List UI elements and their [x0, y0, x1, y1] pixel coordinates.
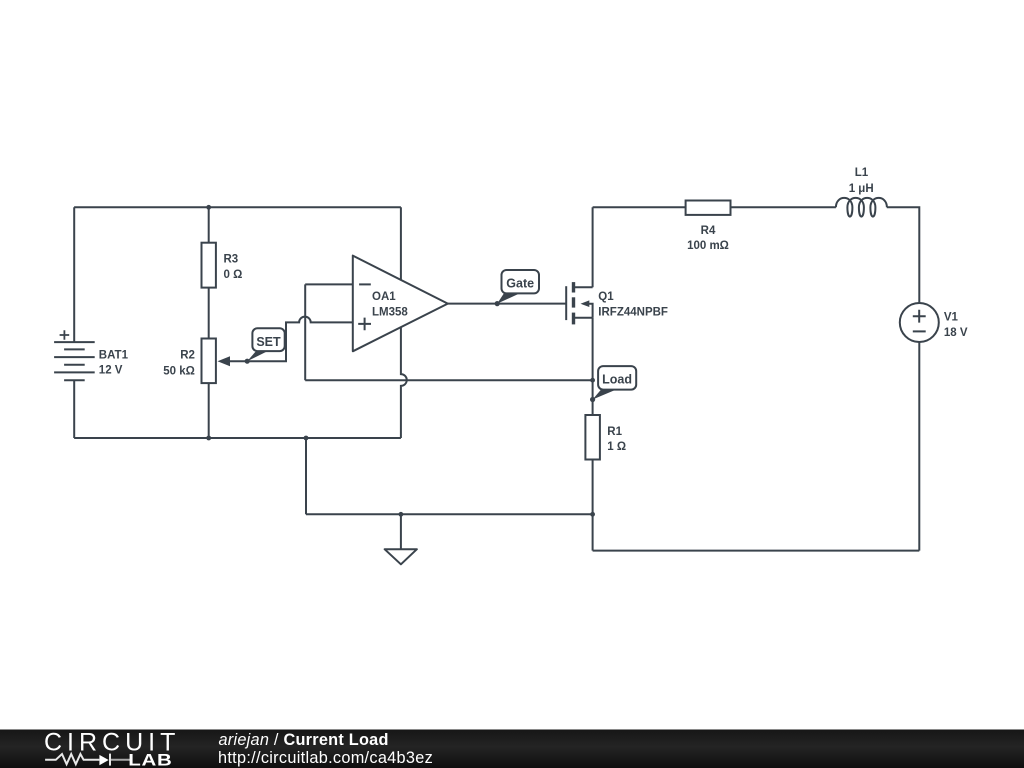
svg-text:12 V: 12 V [99, 365, 123, 377]
svg-text:Q1: Q1 [598, 291, 614, 303]
svg-text:V1: V1 [944, 311, 959, 323]
wire top rail right loop (R4 to L1) [731, 206, 836, 208]
wire battery bottom lead [73, 380, 75, 438]
inductor L1 [836, 198, 887, 217]
voltage source V1 [900, 303, 939, 342]
label R4 value [687, 225, 729, 252]
wire R1 bottom down to bottom rail [592, 460, 594, 551]
wire right side of left loop with hop over feedback [401, 207, 407, 438]
wire R2 bottom lead [208, 383, 210, 438]
label R1 value [607, 426, 626, 453]
wire drain vertical [592, 207, 594, 287]
svg-text:R1: R1 [607, 426, 622, 438]
footer logo resistor-diode glyph [45, 754, 131, 766]
wire R3 top lead [208, 207, 210, 242]
wire op-amp minus input [305, 283, 353, 285]
battery BAT1 [54, 342, 95, 380]
node Gate dot [495, 301, 500, 306]
op-amp minus glyph [359, 283, 371, 285]
wire top rail right loop (left of R4) [593, 206, 686, 208]
battery plus sign [60, 330, 70, 340]
resistor R1 [585, 415, 600, 460]
svg-text:SET: SET [256, 335, 281, 349]
svg-text:1 μH: 1 μH [849, 183, 874, 195]
label V1 value [944, 311, 968, 339]
label L1 value [849, 167, 874, 195]
node SET wiper dot [245, 359, 250, 364]
node ground branch junction [304, 436, 309, 441]
svg-text:R3: R3 [224, 254, 239, 266]
wire ground run horizontal [306, 513, 593, 515]
label OA1 LM358 [372, 291, 408, 319]
svg-text:BAT1: BAT1 [99, 349, 129, 361]
op-amp U1 OA1 triangle [353, 256, 448, 352]
label R3 value [224, 254, 243, 281]
svg-text:100 mΩ: 100 mΩ [687, 240, 729, 252]
wire mosfet source to R1 [592, 318, 594, 415]
node SET balloon [247, 328, 284, 361]
wire ground stem [400, 514, 402, 549]
wire left side battery top lead [73, 207, 75, 342]
node ground-R1 junction [590, 512, 595, 517]
wire wiper to SET node [229, 360, 247, 362]
wire V1 bottom lead and right side down [918, 342, 920, 551]
wire R3-R2 link [208, 288, 210, 339]
svg-text:R4: R4 [701, 225, 716, 237]
wire bottom-rail to ground run vertical [305, 438, 307, 514]
svg-text:Gate: Gate [506, 277, 534, 291]
wire bottom rail right loop [593, 550, 920, 552]
wire SET node to op-amp plus input with hop [247, 317, 353, 362]
label BAT1 value [99, 349, 129, 376]
potentiometer R2 wiper arrow [218, 356, 231, 366]
transistor Q1 NMOS [566, 282, 592, 324]
svg-text:1 Ω: 1 Ω [607, 441, 626, 453]
wire top rail left loop [74, 206, 401, 208]
node feedback-source junction [590, 378, 595, 383]
svg-text:IRFZ44NPBF: IRFZ44NPBF [598, 307, 668, 319]
node Gate balloon [497, 270, 539, 304]
node ground stem junction [399, 512, 404, 517]
svg-text:http://circuitlab.com/ca4b3ez: http://circuitlab.com/ca4b3ez [218, 749, 433, 767]
svg-text:OA1: OA1 [372, 291, 396, 303]
svg-text:Load: Load [602, 373, 632, 387]
svg-text:LAB: LAB [128, 750, 172, 768]
node R2 bottom rail junction [206, 436, 211, 441]
potentiometer R2 [202, 339, 216, 384]
resistor R4 [686, 201, 731, 215]
V1 minus glyph [913, 330, 926, 332]
node Load dot [590, 397, 595, 402]
wire bottom rail left loop [74, 437, 401, 439]
svg-text:LM358: LM358 [372, 306, 408, 318]
svg-text:ariejan / Current Load: ariejan / Current Load [219, 731, 389, 749]
V1 plus glyph [913, 310, 926, 323]
wire feedback horizontal to source node [305, 379, 592, 381]
footer bar [0, 730, 1024, 768]
svg-text:18 V: 18 V [944, 327, 968, 339]
wire op-amp output to gate [448, 303, 566, 305]
label R2 value [163, 350, 195, 378]
wire top rail right loop (L1 to corner) and V1 top lead [887, 207, 920, 303]
ground [385, 549, 417, 564]
junction dots [206, 205, 595, 517]
node Load balloon [593, 366, 637, 399]
label Q1 value [598, 291, 668, 319]
op-amp plus glyph [358, 318, 371, 331]
svg-text:L1: L1 [855, 167, 869, 179]
node R3 top rail junction [206, 205, 211, 210]
svg-text:50 kΩ: 50 kΩ [163, 365, 195, 377]
transistor Q1 arrow [581, 300, 590, 307]
svg-text:0 Ω: 0 Ω [224, 269, 243, 281]
wire minus input down feedback vertical [304, 284, 306, 380]
resistor R3 [202, 243, 216, 288]
svg-text:R2: R2 [180, 350, 195, 362]
